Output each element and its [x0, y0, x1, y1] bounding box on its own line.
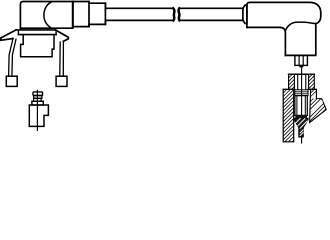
- well tube left wall (hatched): [289, 74, 295, 89]
- small plug rib 2: [34, 98, 42, 101]
- right boot bottom edge + elbow inner corner: [247, 27, 286, 55]
- thread zone (dark): [295, 115, 307, 118]
- plug seat funnel: [294, 118, 308, 136]
- left connector boot body (angled distributor boot): [20, 2, 72, 31]
- plug insulator edges in well: [298, 74, 306, 89]
- right wing: [55, 30, 68, 41]
- left step verticals: [89, 2, 105, 27]
- small spark plug axis: [36, 90, 38, 130]
- right boot shoulder curve: [286, 22, 316, 31]
- lower-left head wall (hatched): [283, 89, 294, 141]
- right leg: [60, 41, 64, 76]
- right boot horizontal body: [247, 2, 321, 27]
- left foot: [6, 76, 17, 86]
- wire break cap left: [173, 8, 174, 20]
- lower-right head wall (hatched): [310, 89, 327, 122]
- small plug rib 1: [34, 96, 42, 99]
- left step section: [89, 3, 105, 24]
- terminal below right boot: [295, 55, 308, 65]
- ledge line: [283, 88, 316, 90]
- rib lines: [295, 92, 308, 94]
- left leg: [9, 39, 16, 77]
- small plug hex: [32, 101, 43, 105]
- plug shell in section: [295, 96, 307, 116]
- left shield collar bottom bar: [18, 34, 56, 36]
- well top edge: [289, 73, 315, 75]
- small plug shell: [29, 105, 48, 126]
- inner boot bucket: [21, 35, 54, 56]
- section axis line: [301, 66, 303, 143]
- left shield collar top bar: [16, 29, 55, 31]
- plug rib collar: [295, 90, 308, 96]
- wire segment 1: [105, 8, 173, 20]
- collar end caps: [18, 31, 56, 35]
- small plug terminal: [33, 92, 43, 96]
- left boot/ferrule divider: [72, 2, 74, 27]
- right ferrule (flared cap): [243, 5, 247, 23]
- wire segment 2: [180, 8, 243, 20]
- terminal tip nub: [299, 66, 303, 68]
- terminal inner prongs: [299, 55, 303, 65]
- left ferrule section: [73, 2, 89, 27]
- left wing: [1, 30, 16, 40]
- left boot end-cap arc: [44, 2, 51, 28]
- well tube right wall (hatched): [309, 74, 315, 89]
- shell inner lines: [297, 96, 305, 116]
- right foot: [56, 76, 67, 86]
- right vertical boot edges: [285, 24, 315, 56]
- wire break cap right: [177, 8, 180, 20]
